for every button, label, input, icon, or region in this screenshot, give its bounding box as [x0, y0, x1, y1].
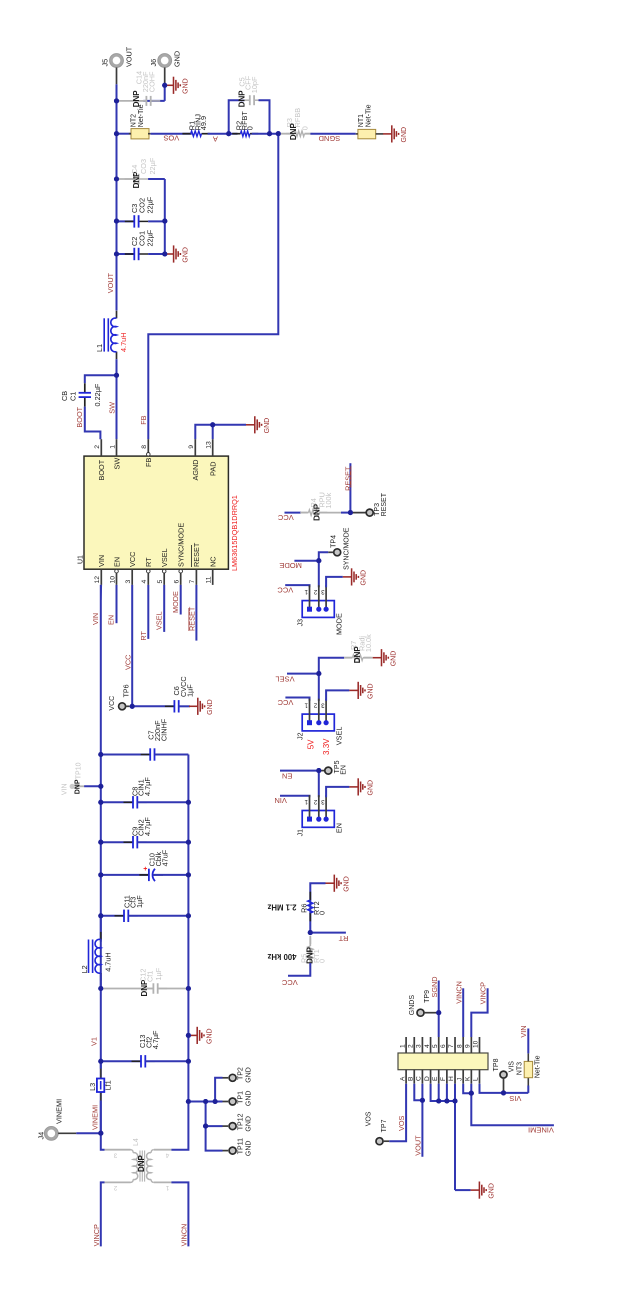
svg-text:B: B — [407, 1076, 414, 1081]
svg-text:Lf1: Lf1 — [104, 1080, 113, 1090]
svg-text:EN: EN — [282, 771, 292, 780]
svg-text:TP11: TP11 — [237, 1138, 244, 1154]
svg-text:A: A — [399, 1076, 406, 1081]
wire R3 to NT1 — [310, 133, 355, 135]
svg-text:5: 5 — [157, 580, 164, 584]
svg-text:PAD: PAD — [209, 462, 218, 476]
svg-text:VIN: VIN — [274, 796, 287, 805]
svg-text:400 kHz: 400 kHz — [267, 952, 296, 961]
pin 9 AGND — [194, 439, 196, 456]
svg-text:2: 2 — [407, 1044, 414, 1048]
svg-text:2: 2 — [313, 798, 317, 805]
wire pin D jog — [431, 1084, 455, 1101]
svg-text:1µF: 1µF — [154, 967, 163, 980]
test point TP8 VIS — [500, 1071, 507, 1078]
svg-text:2: 2 — [94, 445, 101, 449]
wire RT — [147, 585, 149, 639]
svg-text:GND: GND — [245, 1067, 252, 1083]
svg-text:0.22µF: 0.22µF — [93, 383, 102, 406]
svg-text:NC: NC — [209, 556, 218, 567]
svg-text:9: 9 — [188, 445, 195, 449]
svg-text:GND: GND — [206, 1028, 213, 1044]
svg-text:NT2: NT2 — [131, 114, 138, 127]
svg-text:TP10: TP10 — [76, 762, 83, 779]
capacitor C3 CO2 22uF — [117, 220, 135, 222]
wire pin A to TP7 — [389, 1084, 406, 1142]
wire pin C VOUT — [421, 1084, 423, 1157]
test point TP1 GND — [229, 1098, 236, 1105]
junction VOUT/C14 — [114, 98, 119, 103]
svg-text:VOS: VOS — [397, 1115, 406, 1131]
header pin 2/B — [413, 1037, 415, 1053]
ground at J3 — [343, 568, 359, 585]
svg-text:K: K — [465, 1076, 472, 1081]
svg-text:VCC: VCC — [277, 513, 293, 522]
svg-text:GND: GND — [361, 570, 368, 586]
svg-text:R6: R6 — [299, 904, 308, 913]
svg-text:3: 3 — [321, 701, 325, 708]
svg-text:4: 4 — [141, 580, 148, 584]
wire NT3 to VIN — [527, 1029, 529, 1054]
wire J1 pin3 to ground — [326, 787, 349, 797]
ground at J1 — [349, 778, 365, 795]
svg-text:U1: U1 — [78, 555, 85, 564]
svg-text:8: 8 — [456, 1044, 463, 1048]
svg-text:4: 4 — [424, 1044, 431, 1048]
junction SW node — [114, 373, 119, 378]
svg-text:6: 6 — [440, 1044, 447, 1048]
svg-text:VCC: VCC — [277, 698, 293, 707]
wire H gnd horizontal — [455, 1189, 471, 1191]
svg-text:J3: J3 — [298, 619, 305, 627]
jumper J3 MODE — [302, 601, 334, 618]
capacitor C6 CVCC 1uF — [132, 705, 174, 707]
junction TP11 branch — [203, 1124, 208, 1129]
svg-text:1: 1 — [304, 588, 308, 595]
wire EN — [116, 585, 118, 623]
svg-text:GND: GND — [183, 78, 190, 94]
svg-text:VCC: VCC — [281, 978, 297, 987]
svg-text:9: 9 — [465, 1044, 472, 1048]
svg-text:GND: GND — [173, 51, 182, 67]
wire VIN bus — [100, 585, 102, 1133]
VOUT bus wire — [116, 101, 118, 311]
junction C4 row — [114, 176, 119, 181]
wire pin F — [446, 1084, 448, 1101]
svg-text:AGND: AGND — [191, 459, 200, 480]
pin 5 VSEL — [163, 569, 165, 585]
header pin 10/L — [478, 1037, 480, 1053]
resistor R3 DNP RFBB 0 — [278, 133, 294, 135]
wire VIS to NT3 — [504, 1092, 529, 1094]
test point TP12 GND — [229, 1123, 236, 1130]
junction TP8/VIS — [501, 1090, 506, 1095]
svg-text:SYNC/MODE: SYNC/MODE — [344, 527, 351, 570]
svg-text:VINCP: VINCP — [92, 1224, 101, 1246]
jumper J1 EN — [302, 811, 334, 828]
svg-text:BOOT: BOOT — [75, 406, 84, 427]
header pin 1/A — [405, 1037, 407, 1053]
capacitor C10 Cblk 47uF polarized — [101, 874, 149, 876]
svg-text:VINEMI: VINEMI — [54, 1099, 63, 1124]
net-tie NT1 — [358, 129, 376, 138]
test point TP4 SYNC/MODE — [334, 549, 341, 556]
svg-text:DNP: DNP — [137, 1154, 146, 1172]
right rail output caps — [164, 179, 166, 254]
svg-text:4.7uH: 4.7uH — [119, 333, 128, 352]
junction C11 row — [98, 913, 103, 918]
svg-text:VINEMI: VINEMI — [91, 1105, 100, 1130]
svg-text:A: A — [213, 135, 218, 144]
ground at NT1 — [383, 125, 399, 142]
junction B/C VOUT — [420, 1098, 425, 1103]
svg-text:1µF: 1µF — [135, 895, 144, 908]
svg-text:VIS: VIS — [509, 1094, 521, 1103]
svg-text:3: 3 — [321, 798, 325, 805]
svg-text:GND: GND — [245, 1141, 252, 1157]
wire to TP2 — [215, 1078, 222, 1102]
test point TP6 VCC — [119, 703, 126, 710]
svg-text:4.7µF: 4.7µF — [151, 1030, 160, 1049]
svg-text:L4: L4 — [133, 1138, 140, 1146]
wire RESET — [195, 585, 197, 641]
svg-text:7: 7 — [189, 580, 196, 584]
net-tie NT3 — [524, 1061, 532, 1077]
svg-text:RT: RT — [139, 630, 148, 640]
svg-text:2.1 MHz: 2.1 MHz — [267, 903, 296, 912]
wire VINCP — [101, 1182, 105, 1246]
wire VIN to J1 pin1 — [280, 796, 310, 797]
svg-text:100k: 100k — [324, 492, 333, 508]
svg-text:3: 3 — [416, 1044, 423, 1048]
wire MODE — [180, 585, 182, 615]
svg-text:0: 0 — [245, 126, 254, 130]
svg-text:TP7: TP7 — [381, 1119, 388, 1132]
svg-text:VOS: VOS — [163, 134, 179, 143]
wire pin B jog — [414, 1084, 422, 1101]
capacitor C8 CIN1 4.7uF — [101, 801, 133, 803]
junction dot overlays — [162, 83, 167, 88]
wire VCC to J3 pin1 — [285, 585, 309, 587]
resistor R1 RINJ 49.9 — [182, 133, 190, 135]
resistor R6 RT2 0 — [309, 892, 311, 900]
wire NT2 to R1 — [151, 133, 192, 135]
svg-text:1: 1 — [165, 1184, 169, 1191]
junction rail TP group — [186, 1099, 191, 1104]
header pin 5/E — [438, 1037, 440, 1053]
wire pin E — [438, 1084, 440, 1101]
junction TP6/VCC — [130, 704, 135, 709]
junction C3 row — [114, 219, 119, 224]
svg-text:L1: L1 — [95, 344, 104, 352]
wire EN to J1 pin2 — [318, 771, 320, 798]
svg-text:6: 6 — [174, 580, 181, 584]
inductor L1 4.7uH — [116, 311, 118, 319]
svg-text:TP4: TP4 — [330, 535, 337, 548]
junction TP2 branch — [213, 1099, 218, 1104]
connector J5 VOUT — [111, 55, 122, 66]
svg-text:VSEL: VSEL — [275, 674, 294, 683]
junction C9 row — [98, 840, 103, 845]
junction C2/rail ground — [162, 251, 167, 256]
pin 6 SYNC/MODE — [180, 569, 182, 585]
svg-text:J1: J1 — [298, 829, 305, 837]
svg-text:GND: GND — [343, 876, 350, 892]
svg-text:VCC: VCC — [124, 655, 133, 670]
svg-text:TP8: TP8 — [493, 1058, 500, 1071]
svg-text:MODE: MODE — [279, 561, 302, 570]
junction C10 row — [98, 872, 103, 877]
junction C13 row — [98, 1059, 103, 1064]
svg-text:GND: GND — [245, 1116, 252, 1132]
svg-text:SYNC/MODE: SYNC/MODE — [177, 523, 186, 567]
svg-text:COHF: COHF — [148, 71, 157, 92]
svg-text:1: 1 — [399, 1044, 406, 1048]
junction J/K VINEMI — [469, 1091, 474, 1096]
svg-text:10: 10 — [473, 1040, 480, 1048]
svg-text:4: 4 — [165, 1151, 169, 1158]
svg-text:1µF: 1µF — [186, 684, 195, 697]
svg-text:VOUT: VOUT — [125, 46, 134, 67]
junction C10/rail — [186, 872, 191, 877]
svg-text:MODE: MODE — [171, 591, 180, 613]
junction C5/R2 — [267, 131, 272, 136]
connector J4 VINEMI — [46, 1128, 57, 1139]
svg-text:J6: J6 — [149, 59, 158, 67]
wire AGND/PAD to ground — [195, 425, 212, 439]
svg-text:RT: RT — [144, 557, 153, 567]
wire SGND pin5 — [438, 981, 440, 1038]
ground at AGND — [246, 416, 262, 433]
svg-text:VCC: VCC — [128, 552, 137, 567]
svg-text:BOOT: BOOT — [97, 459, 106, 480]
wire VCC — [131, 585, 133, 706]
svg-text:RESET: RESET — [381, 492, 388, 516]
svg-text:1: 1 — [109, 445, 116, 449]
capacitor C2 CO1 22uF — [117, 253, 135, 255]
junction C9/rail — [186, 840, 191, 845]
junction C8/rail — [186, 800, 191, 805]
svg-text:VIS: VIS — [508, 1061, 515, 1073]
svg-text:E: E — [432, 1076, 439, 1081]
header pin 7/H — [454, 1037, 456, 1053]
wire J3 pin3 to ground — [326, 577, 343, 587]
ground at mid rail — [188, 1027, 204, 1044]
right rail input caps — [187, 755, 189, 1062]
svg-text:TP2: TP2 — [237, 1067, 244, 1080]
svg-text:1: 1 — [304, 798, 308, 805]
wire VINCN pin8 — [462, 988, 464, 1037]
wire VSEL — [163, 585, 165, 632]
wire pin L VIS — [480, 1084, 504, 1093]
svg-text:7: 7 — [448, 1044, 455, 1048]
ground at header — [471, 1182, 487, 1199]
svg-text:GND: GND — [367, 780, 374, 796]
svg-text:Net-Tie: Net-Tie — [138, 104, 145, 127]
junction VSEL node — [316, 671, 321, 676]
ground at J6 — [162, 83, 167, 88]
test point TP5 EN — [325, 767, 332, 774]
junction C13/rail — [186, 1059, 191, 1064]
wire rail to transformer pin4 — [171, 1061, 188, 1149]
svg-text:VINCN: VINCN — [180, 1224, 189, 1247]
pin 7 RESET — [195, 569, 197, 585]
svg-text:CO3: CO3 — [139, 159, 148, 174]
ground at J2 — [349, 682, 365, 699]
svg-text:VINEMI: VINEMI — [528, 1126, 554, 1135]
svg-text:Net-Tie: Net-Tie — [535, 1055, 542, 1078]
junction C12 row — [98, 986, 103, 991]
svg-text:C4: C4 — [130, 165, 139, 174]
svg-text:J2: J2 — [298, 732, 305, 740]
junction H gnd — [452, 1098, 457, 1103]
svg-text:NT1: NT1 — [358, 114, 365, 127]
svg-text:TP6: TP6 — [123, 684, 130, 697]
svg-text:3: 3 — [321, 588, 325, 595]
pin 2 BOOT — [100, 439, 102, 456]
net-tie NT2 — [117, 133, 132, 135]
resistor R5 DNP RT1 0 — [309, 936, 311, 944]
svg-text:2: 2 — [113, 1184, 117, 1191]
svg-text:VIN: VIN — [519, 1026, 528, 1038]
svg-text:3: 3 — [125, 580, 132, 584]
junction PAD/AGND — [210, 422, 215, 427]
svg-text:VSEL: VSEL — [160, 548, 169, 567]
wire C14 net — [164, 85, 166, 101]
header pin 6/F — [446, 1037, 448, 1053]
svg-text:VIN: VIN — [61, 783, 68, 795]
test point TP11 GND — [229, 1147, 236, 1154]
svg-text:22µF: 22µF — [145, 196, 154, 213]
ground at C6 — [189, 698, 205, 715]
pin 12 VIN — [100, 569, 102, 585]
wire to VCC — [288, 963, 310, 976]
wire VINCP pin9 — [471, 988, 487, 1037]
svg-text:SW: SW — [107, 402, 116, 414]
svg-text:10: 10 — [109, 576, 116, 584]
capacitor C7 220nF CINHF — [101, 754, 150, 756]
svg-text:EN: EN — [107, 615, 116, 625]
capacitor C13 Cf2 4.7uF — [101, 1060, 141, 1062]
svg-text:RESET: RESET — [192, 542, 201, 567]
junction rail ground — [186, 1033, 191, 1038]
junction MODE node — [316, 558, 321, 563]
junction A node — [226, 131, 231, 136]
svg-text:VINCP: VINCP — [479, 982, 488, 1004]
svg-text:49.9: 49.9 — [199, 116, 208, 130]
junction C11/rail — [186, 913, 191, 918]
junction RT node — [308, 930, 313, 935]
wire SW to pin1 — [116, 375, 118, 439]
transformer L4 DNP — [101, 1133, 105, 1150]
wire MODE to J3 pin2 — [318, 561, 320, 588]
ground at R7 — [373, 649, 389, 666]
svg-text:VSEL: VSEL — [155, 611, 164, 630]
svg-text:FB: FB — [144, 458, 153, 467]
svg-text:10.0k: 10.0k — [364, 634, 373, 652]
capacitor C4 DNP CO3 22uF — [117, 178, 135, 180]
svg-text:VCC: VCC — [109, 696, 116, 711]
svg-text:4.7uH: 4.7uH — [103, 952, 112, 971]
resistor R7 DNP Radj 10.0k — [319, 658, 344, 674]
svg-text:NT3: NT3 — [517, 1062, 524, 1075]
svg-text:8: 8 — [141, 445, 148, 449]
svg-text:GNDS: GNDS — [409, 995, 416, 1016]
resistor R4 DNP RPU 100k — [285, 512, 302, 514]
svg-text:RESET: RESET — [344, 466, 353, 491]
svg-text:EN: EN — [341, 765, 348, 775]
ground at RT2 — [326, 875, 342, 892]
junction C7 row — [98, 752, 103, 757]
test point TP10 DNP VIN — [98, 784, 103, 789]
wire VCC to J2 pin1 — [285, 698, 309, 701]
wire J6 to ground — [164, 68, 166, 85]
svg-text:SGND: SGND — [318, 134, 340, 143]
junction TP9/SGND — [436, 1010, 441, 1015]
wire pin H to ground — [454, 1084, 456, 1190]
pin 13 PAD — [212, 439, 214, 456]
pin 11 NC — [212, 569, 214, 585]
svg-text:VIN: VIN — [91, 613, 100, 625]
capacitor C5 DNP CFF 10pF — [229, 100, 245, 134]
resistor R2 RFBT 0 — [232, 133, 240, 135]
svg-text:FB: FB — [139, 415, 148, 424]
net label RT jumper — [310, 932, 346, 934]
svg-text:2: 2 — [313, 588, 317, 595]
svg-text:2: 2 — [313, 701, 317, 708]
ferrite bead L3 Lf1 — [100, 1061, 102, 1068]
wire R1 to R2 — [208, 133, 238, 135]
svg-text:GND: GND — [207, 699, 214, 715]
svg-text:0: 0 — [317, 959, 326, 963]
svg-text:DNP: DNP — [237, 90, 246, 108]
wire pin J jog — [463, 1084, 471, 1094]
svg-text:13: 13 — [206, 441, 213, 449]
svg-text:GND: GND — [489, 1183, 496, 1199]
pin 4 RT — [147, 569, 149, 585]
svg-text:12: 12 — [94, 576, 101, 584]
junction C3/rail — [162, 219, 167, 224]
capacitor C14 DNP 220nF — [117, 100, 147, 102]
svg-text:0: 0 — [301, 126, 310, 130]
svg-text:J5: J5 — [101, 59, 110, 67]
wire TP4 to MODE — [328, 551, 333, 553]
junction TP12 branch — [203, 1099, 208, 1104]
svg-text:VOUT: VOUT — [414, 1135, 423, 1156]
svg-text:V1: V1 — [90, 1037, 99, 1046]
wire J2 pin3 to ground — [326, 690, 349, 700]
test point TP3 RESET — [366, 509, 373, 516]
inductor L2 4.7uH — [100, 916, 102, 942]
svg-text:RFBB: RFBB — [293, 108, 302, 128]
header pin 4/D — [430, 1037, 432, 1053]
svg-text:F: F — [440, 1077, 447, 1081]
svg-text:VCC: VCC — [277, 585, 293, 594]
svg-text:EN: EN — [112, 557, 121, 567]
svg-text:C1: C1 — [69, 392, 78, 401]
svg-text:GND: GND — [245, 1091, 252, 1107]
header pin 8/J — [462, 1037, 464, 1053]
svg-text:0: 0 — [317, 911, 326, 915]
wire RESET net — [349, 463, 351, 512]
svg-text:1: 1 — [304, 701, 308, 708]
jumper J2 VSEL — [302, 714, 334, 731]
header connector 10-pin — [398, 1053, 488, 1070]
wire FB from pin8 to divider — [148, 134, 278, 440]
junction C2 row — [114, 251, 119, 256]
pin 1 SW — [116, 439, 118, 456]
junction FB node — [276, 131, 281, 136]
